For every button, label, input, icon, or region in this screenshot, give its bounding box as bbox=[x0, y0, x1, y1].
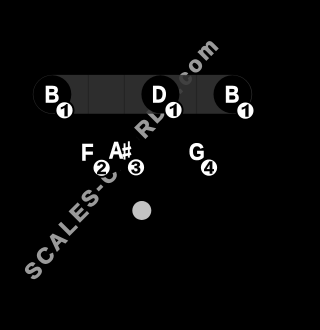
finger badge 3 on A# bbox=[126, 157, 146, 177]
watermark SCALES-CHORDS.com bbox=[19, 33, 222, 284]
svg-text:D: D bbox=[152, 81, 167, 108]
svg-text:A: A bbox=[109, 137, 124, 164]
string 4 bbox=[123, 75, 125, 114]
note circle A# string4 bbox=[105, 133, 143, 171]
svg-text:B: B bbox=[225, 81, 240, 108]
svg-text:2: 2 bbox=[97, 158, 107, 178]
svg-text:4: 4 bbox=[204, 158, 214, 178]
note circle B string1 bbox=[214, 75, 252, 113]
note circle B string6 bbox=[33, 75, 71, 113]
svg-text:3: 3 bbox=[131, 157, 141, 177]
svg-text:F: F bbox=[81, 139, 93, 166]
string 5 bbox=[87, 75, 89, 114]
string 2 bbox=[196, 75, 198, 114]
fret band bbox=[33, 75, 252, 114]
finger badge 1 on B string1 bbox=[235, 101, 255, 121]
string 1 bbox=[232, 75, 234, 114]
note circle G string2 bbox=[178, 133, 216, 171]
finger badge 4 on G bbox=[199, 158, 219, 178]
fret marker dot bbox=[132, 201, 151, 220]
finger badge 2 on F bbox=[92, 158, 112, 178]
string 3 bbox=[159, 75, 161, 114]
string 6 bbox=[51, 75, 53, 114]
finger badge 1 on D string3 bbox=[164, 100, 184, 120]
string lines on band bbox=[52, 75, 232, 114]
note circle F string5 bbox=[69, 133, 107, 171]
note circle D string3 bbox=[141, 75, 179, 113]
finger badge 1 on B string6 bbox=[55, 100, 75, 120]
sharp sign of A# bbox=[122, 141, 131, 159]
